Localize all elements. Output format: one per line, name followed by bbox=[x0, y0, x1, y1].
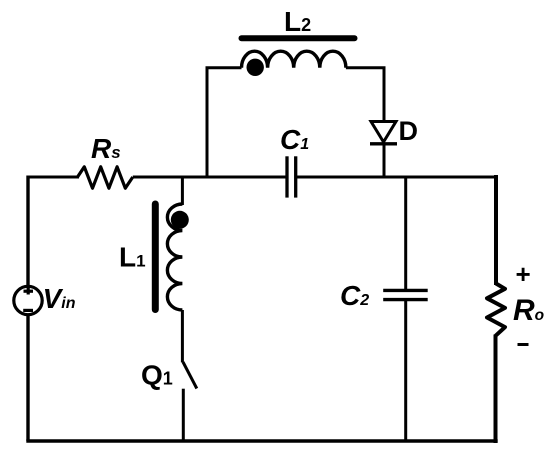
wire L1 to switch bbox=[181, 310, 184, 362]
wire switch to bottom rail bbox=[182, 389, 185, 441]
label - output polarity bbox=[518, 343, 529, 346]
svg-text:Ro: Ro bbox=[513, 294, 544, 327]
polarity dot L2 bbox=[247, 59, 264, 76]
svg-text:D: D bbox=[399, 116, 419, 146]
svg-text:L2: L2 bbox=[284, 6, 311, 37]
switch Q1 blade bbox=[183, 362, 197, 389]
diode D bbox=[370, 122, 397, 144]
wire bottom rail bbox=[26, 439, 497, 443]
wire top rail left segment bbox=[27, 176, 80, 179]
wire C2 bottom leg bbox=[404, 300, 407, 441]
inductor L2 bbox=[242, 51, 346, 68]
svg-text:Vin: Vin bbox=[43, 283, 76, 314]
svg-text:C2: C2 bbox=[340, 280, 369, 311]
wire top rail right segment bbox=[296, 176, 496, 179]
wire top rail middle segment bbox=[133, 176, 286, 179]
wire left vertical lower bbox=[26, 315, 29, 442]
capacitor C2 bbox=[383, 290, 428, 299]
wire right vertical lower bbox=[494, 335, 498, 444]
resistor Ro bbox=[487, 284, 505, 336]
resistor Rs bbox=[78, 167, 133, 188]
wire C2 top leg bbox=[404, 176, 407, 290]
svg-text:L1: L1 bbox=[119, 242, 146, 273]
wire left vertical upper bbox=[26, 176, 29, 288]
polarity dot L1 bbox=[171, 211, 189, 229]
wire L1 top leg bbox=[181, 176, 184, 205]
core bar L2 bbox=[242, 35, 355, 41]
capacitor C1 bbox=[287, 156, 296, 197]
svg-text:+: + bbox=[516, 259, 531, 289]
svg-text:Q1: Q1 bbox=[141, 360, 173, 391]
core bar L1 bbox=[152, 204, 159, 310]
source Vin bbox=[14, 286, 42, 314]
wire L2 left leg bbox=[207, 68, 242, 179]
wire L2 right leg bbox=[346, 68, 384, 122]
svg-text:C1: C1 bbox=[280, 124, 309, 155]
wire diode to rail bbox=[383, 144, 386, 179]
inductor L1 bbox=[167, 204, 182, 310]
svg-text:Rs: Rs bbox=[91, 133, 121, 164]
wire right vertical upper bbox=[494, 175, 498, 285]
